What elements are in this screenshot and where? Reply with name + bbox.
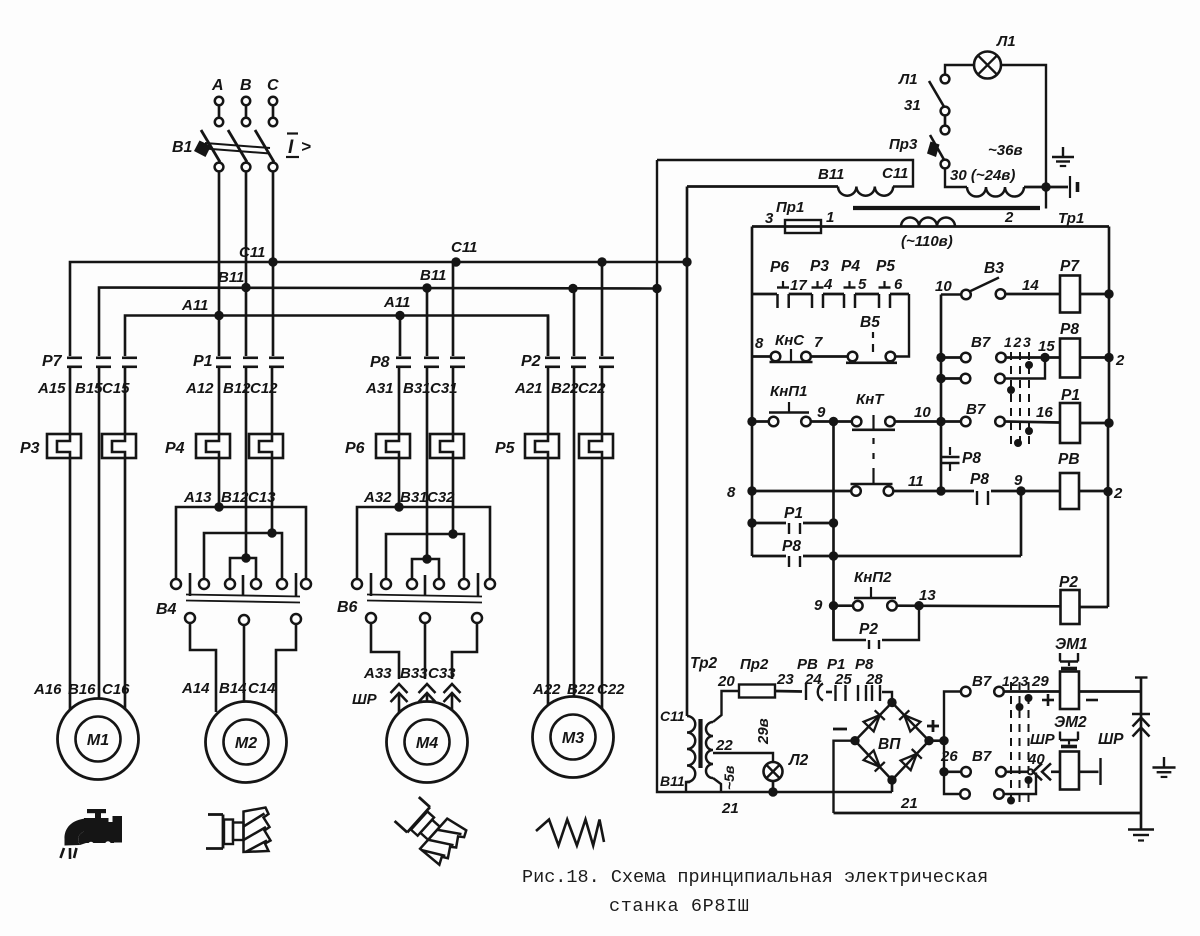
node A32 junction [394,502,403,511]
wire KnP1 to KnT [811,420,852,423]
wire row 771 with ShR arrows [1006,770,1032,773]
node middle rail junctions [936,353,945,362]
icon spring (zigzag) [536,820,604,846]
svg-text:(~110в): (~110в) [901,233,953,250]
wire reverser outer M4 [357,507,490,579]
contact P8 row [752,555,786,558]
svg-text:21: 21 [900,795,918,812]
contact P8 time-delay [949,447,951,455]
svg-text:Рис.18. Схема принципиальная э: Рис.18. Схема принципиальная электрическ… [522,867,988,888]
motor M3 [533,697,614,778]
node 13 junction [914,601,923,610]
svg-text:А21: А21 [514,380,543,397]
svg-text:КнП1: КнП1 [770,383,807,400]
contact P1 row [747,518,756,527]
svg-text:В11: В11 [660,773,685,789]
contact P2 bypass [834,606,867,640]
svg-text:Л2: Л2 [788,752,809,769]
contact P8 NC row8 [946,490,975,493]
svg-text:В3: В3 [984,260,1004,277]
svg-text:~36в: ~36в [988,142,1023,159]
svg-text:Р2: Р2 [859,621,878,638]
wire Tr2 bottom wrap [686,782,690,792]
svg-text:В7: В7 [972,673,992,690]
svg-text:Р7: Р7 [42,353,63,370]
node 24V junction [1041,182,1050,191]
svg-text:С11: С11 [660,708,685,724]
connector B7 row2 [961,374,971,384]
svg-text:2: 2 [1013,334,1022,350]
transformer Tr1 winding B11-C11 [838,187,893,196]
button KnT [852,417,862,427]
wire row2 stub [941,377,961,380]
fuse Pr2 [739,685,775,698]
wire 24V to node 2 [1024,186,1068,189]
switch B6 [370,573,373,596]
svg-text:Р3: Р3 [810,258,829,275]
motor M1 [58,699,139,780]
svg-text:22: 22 [715,737,733,754]
svg-text:В1: В1 [172,139,193,156]
svg-text:1: 1 [826,209,834,226]
wire B7 left rail [944,692,961,795]
wire branch3 mid [398,367,401,434]
transformer Tr2 core [698,719,702,768]
svg-text:А14: А14 [181,680,210,697]
connector B7 right pins [994,687,1004,697]
svg-text:В12: В12 [221,489,249,506]
wire ShR to M4 [398,693,401,712]
svg-text:В31: В31 [400,489,428,506]
svg-text:9: 9 [814,597,823,614]
connector ShR right vertical [1132,713,1150,715]
svg-text:30 (~24в): 30 (~24в) [950,167,1015,184]
thermal relay P6 heaters [376,434,410,458]
svg-text:В5: В5 [860,314,880,331]
svg-text:Р1: Р1 [784,505,803,522]
svg-text:26: 26 [940,748,958,765]
svg-text:С11: С11 [451,239,477,256]
svg-text:8: 8 [755,335,764,352]
button KnT lower contact [851,483,893,486]
svg-text:С12: С12 [250,380,278,397]
svg-text:М3: М3 [562,730,584,747]
svg-text:1: 1 [1004,334,1012,350]
svg-text:С32: С32 [427,489,455,506]
svg-text:11: 11 [908,473,924,490]
svg-text:Р6: Р6 [345,440,365,457]
svg-text:С16: С16 [102,681,130,698]
wire branch3 feeders [399,316,402,357]
relay NC thermal contacts P6 P3 P4 P5 [752,293,777,296]
svg-text:КнП2: КнП2 [854,569,892,586]
node B terminal [242,97,250,105]
node A11 junctions [214,311,223,320]
wire branch1 lower [69,458,72,711]
transformer Tr2 secondary [706,722,713,778]
button KnP2 [838,604,853,607]
label I> overcurrent [287,132,298,134]
svg-text:7: 7 [814,334,823,351]
connector B7 row3 [961,417,971,427]
connector pin top right [1069,176,1071,198]
svg-text:Л1: Л1 [996,33,1016,50]
svg-text:Тр2: Тр2 [690,655,718,672]
svg-text:ШР: ШР [352,691,378,708]
svg-text:Р5: Р5 [876,258,895,275]
wire 9b loop [1020,491,1023,556]
wire to RV coil [1026,490,1060,493]
svg-text:Р1: Р1 [193,353,213,370]
svg-text:24: 24 [804,671,822,688]
wire EM1 to right vertical [1079,690,1141,693]
node 9 lower junction [829,601,838,610]
transformer Tr2 primary [687,716,695,782]
wire net9 vertical [832,422,835,641]
svg-text:40: 40 [1027,751,1045,768]
svg-text:29: 29 [1031,673,1049,690]
switch B5 [848,352,858,362]
wire KnT to rail 10 [895,420,937,423]
label bridge plus [927,725,939,728]
wire right vertical lower [1140,714,1143,829]
svg-text:В7: В7 [966,401,986,418]
svg-text:Р7: Р7 [1060,258,1080,275]
wire row 691 to EM1 [1005,690,1060,693]
svg-text:28: 28 [865,671,883,688]
svg-text:17: 17 [790,277,807,294]
wire 110V primary [752,225,1109,228]
wire bridge to B7 rail [929,739,944,742]
svg-text:А13: А13 [183,489,212,506]
wire reverser fork M2 [230,558,256,579]
svg-text:~5в: ~5в [721,765,737,790]
node P1 row junction [829,518,838,527]
icon milling cutter M4 [392,791,470,867]
wire rail B11 (net B11) [657,160,892,792]
svg-text:Р4: Р4 [165,440,185,457]
wire bus A11 [125,316,548,357]
node 9b junction [1016,486,1025,495]
svg-text:2: 2 [1115,352,1125,369]
svg-text:20: 20 [717,673,735,690]
svg-text:С11: С11 [239,244,265,261]
svg-text:станка 6Р8IШ: станка 6Р8IШ [609,896,749,917]
wire to 24V winding [945,169,967,188]
wire P2 to right rail [1080,606,1109,609]
wire top control feed [657,160,913,187]
svg-text:13: 13 [919,587,936,604]
switch B4 moving contacts [185,613,195,623]
svg-text:А31: А31 [365,380,394,397]
svg-text:В11: В11 [420,267,446,284]
wire B6 to connector [371,623,399,679]
svg-text:23: 23 [776,671,794,688]
svg-text:Р6: Р6 [770,259,789,276]
node B12 fork [241,553,250,562]
svg-text:Р8: Р8 [962,450,981,467]
svg-text:С: С [267,77,279,94]
wire branch1 upper [69,367,72,434]
node dashed dots upper [1025,361,1033,369]
wire lamp L1 right [1001,65,1046,187]
svg-text:А16: А16 [33,681,62,698]
wire branch3 to reverser [398,458,401,507]
contact RV time-delay [805,683,807,700]
node 15 junction [1040,353,1049,362]
ground far right [1163,757,1165,768]
svg-text:В: В [240,77,252,94]
node C terminal [269,97,277,105]
svg-text:Л1: Л1 [898,71,918,88]
motor M4 [387,702,468,783]
label EM1 minus [1086,699,1098,702]
wire right rail (net 2) [1108,227,1111,424]
svg-text:В7: В7 [971,334,991,351]
svg-text:А11: А11 [383,294,410,311]
wire rail C11 (net C11) [686,187,689,717]
svg-text:В11: В11 [218,269,244,286]
svg-text:14: 14 [1022,277,1039,294]
svg-text:В16: В16 [68,681,96,698]
relay coil P8 [1060,339,1080,378]
contact P1 rectifier row [826,691,832,694]
ground top right [1062,147,1064,157]
node P8 row junction [829,551,838,560]
wire row2 joins row1 [1005,358,1045,379]
node C32 junction [448,529,457,538]
svg-text:6: 6 [894,276,903,293]
node B31 fork [422,554,431,563]
svg-text:1: 1 [1002,673,1010,689]
button KnP1 [752,420,769,423]
svg-text:Тр1: Тр1 [1058,210,1084,227]
connector B7 dashed lines upper [1010,352,1012,447]
wire row1 stub [941,356,961,359]
svg-text:А15: А15 [37,380,66,397]
wire to bridge top [882,692,892,703]
node right rail junctions [1104,289,1113,298]
svg-text:В11: В11 [818,166,844,183]
node 9 junction [829,417,838,426]
wire RV to right rail [1079,490,1108,493]
node RV right junction [1103,487,1112,496]
button KnS [752,355,771,358]
svg-text:10: 10 [935,278,952,295]
wire reverser middle M4 [386,534,464,579]
icon milling cutter M2 [206,808,271,853]
svg-text:16: 16 [1036,404,1053,421]
wire left rail (net 3) [751,227,754,557]
wire C11 to Tr1 winding [687,185,838,188]
svg-text:25: 25 [834,671,852,688]
transformer Tr1 core [853,206,1040,210]
svg-text:С22: С22 [597,681,625,698]
relay coil P1 [1060,403,1080,443]
fuse Pr1 [785,220,821,233]
svg-text:15: 15 [1038,338,1055,355]
transformer Tr1 winding 30 (~24V) [967,187,1024,197]
svg-text:Р8: Р8 [782,538,801,555]
thermal relay P5 heaters [525,434,559,458]
svg-text:Пр3: Пр3 [889,136,918,153]
svg-text:Пр2: Пр2 [740,656,769,673]
svg-text:Р3: Р3 [20,440,40,457]
wire secondary bottom tap 21 [713,778,721,792]
svg-text:ВП: ВП [878,736,901,753]
connector pin top of right vertical [1135,676,1148,678]
wire row 794 [1004,773,1036,795]
node C13 junction [267,528,276,537]
wire branch4 lower [547,458,550,710]
svg-text:М1: М1 [87,732,109,749]
switch B4 terminals [171,579,181,589]
relay coil P7 [1060,276,1080,313]
svg-text:Р2: Р2 [1059,574,1078,591]
switch B4 [189,573,192,596]
wire row8 mid [894,490,937,493]
node B11 junctions [241,283,250,292]
relay coil RV [1060,473,1079,509]
wire KnP2 to P2 [897,604,1060,607]
icon coolant pump (faucet) [87,809,106,813]
wire branch4 feeders [547,316,550,357]
svg-text:Пр1: Пр1 [776,199,804,216]
wire branch2 to reverser [218,458,221,507]
switch B1 [201,130,220,162]
svg-text:Р8: Р8 [370,354,390,371]
svg-text:>: > [301,137,311,156]
wire bus B11 [99,288,657,357]
switch B6 terminals [352,579,362,589]
svg-text:ЭМ2: ЭМ2 [1054,714,1087,731]
switch L1 [941,75,950,84]
thermal relay P3 heaters [47,434,81,458]
svg-text:Р5: Р5 [495,440,516,457]
svg-text:В4: В4 [156,601,177,618]
lamp L2 [764,762,783,781]
wire tap 22 to lamp [713,753,773,762]
fuse Pr3 [941,126,950,135]
lamp L1 [974,52,1001,79]
svg-text:М2: М2 [235,735,257,752]
contact P8 rectifier row [857,685,859,701]
wire P7 to right rail [1080,293,1109,296]
svg-text:КнС: КнС [775,332,805,349]
wire contacts to KnS row [896,294,910,357]
wire middle rail (net 10) [940,295,943,492]
svg-text:4: 4 [823,276,833,293]
wire P8 to right rail [1080,356,1109,359]
node A terminal [215,97,223,105]
wire phase C feeder [272,172,275,357]
svg-text:С11: С11 [882,165,908,182]
wire phase A feeder [218,172,221,357]
svg-text:Р4: Р4 [841,258,860,275]
wire row1 to P8 [1006,356,1059,359]
svg-text:А32: А32 [363,489,392,506]
wire lamp L2 down [772,781,775,792]
svg-text:2: 2 [1113,485,1123,502]
svg-text:I: I [288,137,294,158]
wire phase B feeder [245,172,248,357]
svg-text:РВ: РВ [1058,451,1080,468]
wire secondary top tap 20 [713,691,739,722]
connector B7 row1 [961,353,971,363]
contactor contacts P1 [216,356,231,359]
svg-text:В6: В6 [337,599,358,616]
svg-text:Р8: Р8 [970,471,989,488]
svg-text:ЭМ1: ЭМ1 [1055,636,1088,653]
svg-text:3: 3 [765,210,774,227]
contactor contacts P7 [67,356,82,359]
thermal relay P4 heaters [196,434,230,458]
svg-text:3: 3 [1023,334,1031,350]
svg-text:А: А [211,77,224,94]
svg-text:10: 10 [914,404,931,421]
svg-text:29в: 29в [755,718,772,745]
wire reverser outer M2 [176,507,306,579]
connector B7 left pins [961,687,971,697]
wire lamp L1 left [945,65,974,75]
node C11 junctions [268,257,277,266]
wire L1 switch link [944,116,947,127]
node left rail junctions [747,417,756,426]
svg-text:Р8: Р8 [1060,321,1079,338]
svg-text:31: 31 [904,97,921,114]
label EM1 plus [1042,699,1054,702]
svg-text:А33: А33 [363,665,392,682]
svg-text:М4: М4 [416,735,438,752]
svg-text:С33: С33 [428,665,456,682]
svg-text:3: 3 [1021,673,1029,689]
svg-text:А11: А11 [181,297,208,314]
label bridge minus [833,728,847,731]
wire bridge left to bus 21 [834,741,856,813]
motor M2 [206,702,287,783]
transformer Tr1 winding (~110V) [901,218,955,227]
svg-text:Р1: Р1 [1061,387,1080,404]
svg-text:5: 5 [858,276,867,293]
wire B3 to P7 [1006,293,1060,296]
node lamp bus junction [768,787,777,796]
node dashed dots lower [1016,703,1024,711]
wire fuse to RV contact [775,690,802,693]
svg-text:С14: С14 [248,680,276,697]
svg-text:С13: С13 [248,489,276,506]
relay coil P2 [1061,590,1080,624]
svg-text:В14: В14 [219,680,247,697]
svg-text:9: 9 [817,404,826,421]
svg-text:2: 2 [1004,209,1014,226]
wire bridge bottom to lamp bus [891,780,894,792]
wire branch2 mid [218,367,221,434]
svg-text:ШР: ШР [1030,731,1056,748]
svg-text:А22: А22 [532,681,561,698]
svg-text:Р2: Р2 [521,353,541,370]
wire row3 to P1 [1005,422,1059,423]
connector B7 dashed lines lower [1010,682,1012,806]
svg-text:В7: В7 [972,748,992,765]
wire reverser middle M2 [204,533,282,579]
svg-text:ШР: ШР [1098,731,1124,748]
wire row3 stub [941,420,961,423]
node A13 junction [214,502,223,511]
wire EM2 right pin [1079,770,1099,773]
wire P1 to right rail [1080,422,1109,425]
wire branch4 mid [547,367,550,434]
connector ShR arrows M4 [391,684,408,693]
